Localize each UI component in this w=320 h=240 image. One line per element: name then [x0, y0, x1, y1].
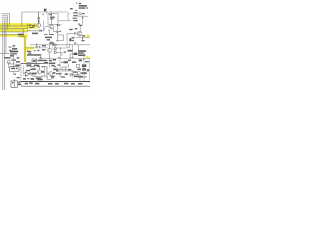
wire corner top: [21, 12, 23, 26]
dark segs below: [56, 73, 62, 74]
labels below wire y58.4: [44, 59, 68, 66]
capacitor C7: [75, 32, 76, 35]
corner wire right bottom: [66, 64, 69, 67]
Q1 base wire: [45, 26, 50, 28]
wire y71: [66, 70, 73, 72]
winding W1: [54, 44, 56, 54]
label inside B1: [11, 68, 15, 70]
wire y24.8 stub: [58, 24, 62, 26]
wire y58.4 long: [42, 57, 90, 59]
labels left of Q3: [42, 45, 46, 50]
wire x78.4 vertical: [77, 45, 79, 50]
wire y48 right of Q3: [52, 47, 67, 49]
dark marks B+: [82, 64, 86, 67]
label inside K1: [33, 60, 36, 62]
node dot x60.5: [60, 47, 61, 48]
wire inside yellow vertical: [24, 36, 26, 62]
label below: [15, 65, 20, 67]
left mid label rows: [9, 45, 19, 59]
wire stub x46.3: [45, 8, 47, 13]
Q1 emitter ticks: [54, 29, 61, 32]
node dot y46.6: [39, 46, 40, 47]
wire corner c2: [2, 16, 8, 29]
label right lower b: [72, 61, 76, 63]
label right: [81, 72, 86, 74]
A1 input wires: [23, 73, 26, 76]
wire corner below Q1: [48, 31, 50, 35]
wire x73 down: [72, 71, 74, 78]
capacitor C5 on vertical: [56, 24, 63, 42]
label below: [81, 40, 84, 41]
wire left y53.6: [0, 53, 11, 55]
transistor Q2 (end of yellow): [37, 23, 41, 27]
wire vertical left long: [2, 21, 4, 90]
transistor Q4: [37, 66, 41, 74]
wire corner c4: [2, 20, 5, 90]
node dots on y76.2: [34, 76, 35, 77]
dark header: [5, 57, 11, 58]
highlight nub below H2: [26, 49, 28, 51]
node dot x83.8: [83, 59, 84, 60]
node dot x49.5: [49, 58, 50, 59]
labels above bus1: [23, 78, 43, 80]
dark wire y63.5: [21, 63, 44, 65]
wire y69.3: [56, 68, 68, 70]
bracket wire right: [68, 14, 71, 21]
diode D1: [82, 17, 84, 19]
wire band S4: [0, 34, 28, 37]
highlight blob at L1: [27, 23, 37, 28]
wire bus w4: [0, 34, 24, 36]
wire x80: [79, 75, 81, 81]
wire stub x13: [12, 46, 14, 50]
wire y16.2: [78, 15, 88, 17]
C2 plus mark: [36, 43, 38, 46]
highlight tip right lower: [86, 56, 89, 58]
capacitor C2: [36, 46, 38, 47]
node dot base Q1: [44, 28, 45, 29]
connector block on S4: [18, 34, 24, 36]
labels below bus1: [25, 82, 83, 84]
node dot x82.5: [82, 38, 83, 39]
label: [77, 69, 81, 71]
label right lower a: [68, 60, 71, 61]
wire bus w1: [0, 25, 28, 27]
bus line lower 2: [21, 85, 90, 87]
wire y44.8 left span: [30, 44, 90, 46]
capacitor C11: [39, 56, 42, 60]
highlight horizontal to C2: [26, 47, 34, 50]
wire frame right of C5: [57, 35, 63, 41]
node stub x27.7: [27, 23, 29, 28]
label right of C9: [16, 61, 20, 63]
stub below dot: [82, 37, 84, 40]
label far right: [87, 69, 90, 71]
component box B2: [11, 81, 17, 87]
component box B3: [62, 67, 66, 71]
ticks above bus right: [78, 76, 87, 77]
label below y76.2: [36, 77, 41, 79]
resistor R14: [74, 53, 78, 55]
B2 internal pole: [13, 79, 15, 87]
node dot left: [13, 63, 14, 64]
lamp LA1: [79, 13, 81, 15]
transistor Q1: [45, 12, 61, 35]
wire y74.7: [70, 74, 78, 76]
wire x20.9 vertical: [20, 63, 22, 82]
wire vertical x23: [22, 29, 24, 37]
trimmer cap body: [38, 20, 40, 22]
wire band S4 ext: [20, 37, 28, 38]
wire x84 lower: [83, 60, 85, 82]
value inside U1: [50, 17, 55, 18]
wire into C7: [67, 32, 77, 34]
wire y20.8 to bracket: [58, 20, 68, 22]
small box left: [7, 61, 10, 64]
label below Q5 b: [51, 77, 54, 78]
label right of x73: [73, 71, 77, 72]
small circle right bottom: [70, 73, 73, 76]
bus line lower 1: [21, 81, 90, 83]
wire T2 emitter down: [79, 36, 81, 37]
wire right edge: [88, 58, 90, 80]
top tick row: [32, 66, 56, 67]
label row below dark wire: [27, 64, 40, 66]
label right of K1: [38, 60, 44, 62]
label right lower c: [85, 61, 89, 62]
circle bottom right: [77, 72, 80, 75]
wire up from D3: [43, 21, 45, 31]
marks right: [74, 76, 78, 78]
label on wire y37.3: [82, 35, 85, 36]
wire corner c1: [2, 14, 10, 26]
relay box K1: [32, 59, 37, 63]
wire y37.3: [76, 36, 90, 38]
node dot x60: [60, 31, 61, 32]
labels right of B2: [18, 81, 21, 85]
A1 bubbles: [30, 72, 32, 74]
label right of LA1: [82, 13, 85, 14]
wire vertical x67: [66, 33, 68, 48]
highlight vertical run: [24, 36, 26, 62]
label inside U1: [49, 14, 52, 15]
labels near Q5: [53, 69, 59, 74]
wire x13.5 vertical: [13, 56, 15, 68]
wire y64: [8, 63, 14, 65]
label near yellow b: [28, 53, 31, 54]
shield box U1: [48, 14, 58, 25]
Q1 collector wire: [50, 12, 52, 24]
wire x8.7: [8, 62, 10, 68]
right mid label rows: [78, 50, 86, 61]
label: [68, 69, 71, 70]
label row 1N41: [27, 54, 41, 56]
small box D5: [27, 63, 31, 67]
node dot x58.9: [58, 57, 59, 58]
label right of D4: [17, 77, 20, 78]
wire x72.5 vertical: [72, 45, 74, 59]
wire band S1: [0, 23, 28, 26]
label small left b: [11, 53, 18, 54]
top right label block: [70, 3, 88, 10]
wire top horizontal: [22, 11, 68, 13]
cap bars right of Q3: [51, 44, 54, 46]
wire x84 vertical: [83, 50, 85, 58]
labels above A1: [26, 66, 32, 71]
label below D1: [78, 24, 80, 25]
labels right of R9: [72, 37, 75, 41]
labels above T2: [69, 25, 82, 30]
value inside U1 b: [50, 18, 54, 19]
D1 cathode wire: [82, 16, 84, 24]
transistor T2: [77, 31, 82, 36]
transistor Q5: [47, 72, 53, 76]
label small left a: [9, 47, 12, 48]
vertical from dot: [60, 48, 62, 58]
label right: [65, 73, 68, 75]
capacitor pair mid: [51, 41, 52, 44]
trimmer cap TC1: [37, 12, 40, 23]
highlighted net (yellow): [0, 23, 89, 62]
label right: [64, 51, 66, 52]
wires near R14: [70, 54, 74, 58]
wire into T2 top: [80, 26, 82, 31]
label above bus mid: [61, 76, 65, 77]
wire w5 stub: [18, 35, 25, 37]
node dot x73: [72, 70, 73, 71]
label near yellow a: [27, 51, 31, 52]
labels near Q4: [32, 68, 44, 74]
D3 bar: [38, 30, 40, 32]
wire y47.7: [25, 47, 48, 49]
wire x44.8: [44, 66, 46, 76]
node dot U1 out: [57, 24, 58, 25]
blob text in yellow: [29, 25, 36, 28]
label below Q5 a: [51, 76, 55, 77]
label column rows: [73, 10, 78, 21]
wire bus w2: [0, 28, 28, 30]
wire band S3 ext: [25, 30, 31, 32]
label bottom: [78, 76, 83, 78]
wire x49.5 down: [49, 64, 51, 68]
wire x23 corner: [23, 66, 25, 73]
capacitor C9 left: [11, 59, 16, 60]
box top right bottom: [76, 64, 79, 67]
component box B1: [9, 67, 19, 72]
transistor Q3: [48, 45, 52, 59]
label inside B2: [12, 82, 14, 83]
label above IC2a: [74, 43, 76, 44]
label inside B1 b: [16, 68, 18, 70]
label IC2a: [68, 50, 73, 52]
B1 lead: [13, 72, 15, 74]
op-amp A1: [26, 72, 30, 76]
wire x47 vertical: [46, 66, 48, 78]
trimmer R9: [69, 38, 71, 41]
highlight tip right T2: [87, 34, 90, 37]
wire corner below Q5: [47, 75, 51, 80]
labels below C2: [34, 50, 40, 52]
wire corner right y47: [66, 43, 69, 48]
comp marks: [82, 68, 86, 71]
wire corner c3: [2, 18, 6, 54]
D4 bar: [15, 73, 17, 75]
label near TC1: [42, 13, 44, 16]
connector blob J1: [44, 9, 46, 12]
diode D4 below B1: [14, 73, 16, 75]
wire y52.7 stub: [56, 53, 62, 56]
diode D3: [39, 30, 42, 32]
wire bus w3: [0, 31, 44, 32]
wire x60 down: [59, 58, 61, 77]
label row mid top: [32, 33, 54, 44]
wire band S3: [0, 29, 25, 32]
wire y76.2: [32, 75, 46, 77]
wire band S2: [0, 26, 30, 29]
label right of Q1: [57, 25, 60, 26]
